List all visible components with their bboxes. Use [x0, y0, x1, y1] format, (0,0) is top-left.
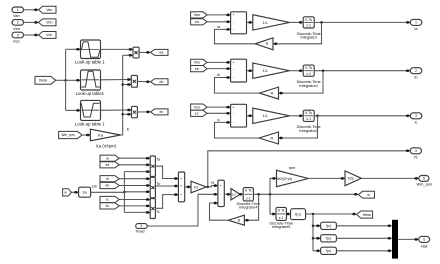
- svg-text:Integrator4: Integrator4: [239, 205, 257, 209]
- look-up table1: [81, 70, 101, 90]
- svg-text:+: +: [232, 105, 234, 109]
- discrete-time integrator4: [243, 188, 253, 201]
- wire 1/w to product Tc: [124, 211, 147, 213]
- product (eb): [131, 75, 137, 87]
- svg-text:1/Zp: 1/Zp: [347, 177, 354, 181]
- wire eb to sum: [207, 68, 227, 70]
- svg-text:z-1: z-1: [246, 197, 251, 201]
- discrete-time integrator (Integrator2): [303, 110, 314, 121]
- inport 2 (Vbn): [12, 20, 24, 26]
- wire ec to sum: [207, 112, 227, 114]
- svg-text:1/L: 1/L: [263, 21, 268, 25]
- svg-text:w: w: [367, 193, 370, 197]
- wire Tb to sum: [155, 185, 175, 187]
- svg-text:-: -: [220, 192, 221, 196]
- wire integrator5 to f(u): [285, 213, 288, 215]
- wire Vbn: [24, 21, 36, 23]
- svg-text:R: R: [266, 42, 269, 46]
- svg-text:+: +: [180, 184, 182, 188]
- svg-text:5: 5: [423, 177, 425, 181]
- outport 4 (Te): [406, 150, 409, 153]
- gain R: [259, 132, 279, 144]
- gain R: [255, 38, 273, 50]
- product (ec): [132, 106, 138, 117]
- from tag [ia] torque: [100, 155, 119, 161]
- svg-text:60/(2*pi): 60/(2*pi): [277, 176, 292, 181]
- svg-text:Te: Te: [211, 181, 215, 185]
- svg-text:1/J: 1/J: [232, 192, 237, 196]
- wire integrator to outport: [314, 21, 406, 23]
- look-up table 2: [81, 100, 101, 120]
- product Tb: [150, 177, 155, 198]
- svg-text:K Ts: K Ts: [245, 189, 252, 193]
- svg-text:Vbn: Vbn: [13, 26, 20, 31]
- wire riser to integrator5: [270, 194, 273, 214]
- svg-text:K Ts: K Ts: [305, 18, 312, 22]
- svg-text:1/w: 1/w: [92, 184, 98, 188]
- svg-text:E: E: [127, 127, 130, 132]
- svg-text:6: 6: [423, 238, 425, 242]
- wire R to sum (ic): [215, 122, 260, 138]
- svg-text:Van: Van: [46, 8, 52, 12]
- wire R to sum (ia): [215, 29, 256, 43]
- from tag [eb] torque: [100, 182, 119, 188]
- from tag [ec]: [191, 110, 207, 116]
- svg-text:Van: Van: [194, 13, 200, 17]
- product (ea): [133, 47, 139, 58]
- from tag [Van]: [191, 12, 207, 18]
- wire product to goto ea: [139, 51, 147, 53]
- svg-text:Integrator: Integrator: [300, 35, 317, 40]
- svg-text:Vbn: Vbn: [194, 61, 200, 65]
- from tag [eb]: [191, 66, 207, 72]
- svg-text:ec: ec: [159, 110, 163, 114]
- wire integrator to outport: [314, 70, 406, 72]
- wire Vbn to sum: [207, 61, 227, 63]
- gain 1/Zp: [345, 171, 361, 186]
- wire w to 1/u: [71, 191, 75, 193]
- from tag [ic] torque: [100, 196, 119, 202]
- svg-text:-: -: [233, 76, 234, 80]
- wire Ta to sum: [155, 166, 175, 178]
- wire Wm_rpm to Ka: [82, 134, 87, 136]
- svg-text:1: 1: [415, 21, 417, 25]
- from tag [Vbn]: [191, 59, 207, 65]
- wire riser to rpm gain: [270, 178, 273, 194]
- wire mux to outport Hall: [398, 238, 415, 240]
- goto tag [ea]: [146, 51, 149, 54]
- svg-text:ea: ea: [195, 20, 199, 24]
- goto tag [Vcn]: [34, 34, 37, 37]
- wire integrator to outport: [314, 115, 406, 117]
- outport 2 (ib): [406, 69, 409, 72]
- svg-text:4: 4: [141, 224, 143, 228]
- wire table2 to product: [101, 79, 129, 81]
- wire sum to gain K3: [185, 186, 188, 188]
- wire hall c to mux: [336, 250, 388, 252]
- wire B to sum: [210, 203, 229, 220]
- wire hall a to mux: [336, 225, 388, 227]
- wire to look-up table 1: [66, 48, 78, 50]
- svg-text:f(u): f(u): [326, 224, 331, 228]
- svg-text:Tb: Tb: [156, 182, 160, 186]
- wire gain to integrator: [290, 115, 301, 117]
- svg-text:Integrator2: Integrator2: [299, 128, 318, 133]
- svg-text:2: 2: [415, 69, 417, 73]
- svg-text:Wm_rpm: Wm_rpm: [417, 182, 433, 187]
- outport 3 (ic): [406, 115, 409, 118]
- goto tag [Van]: [34, 9, 37, 12]
- goto tag [eb]: [146, 80, 149, 83]
- svg-text:ia: ia: [217, 25, 220, 29]
- svg-text:-: -: [233, 20, 234, 24]
- svg-text:1/u: 1/u: [82, 191, 87, 195]
- svg-text:Wm_rpm: Wm_rpm: [61, 133, 75, 137]
- svg-text:+: +: [232, 61, 234, 65]
- wire table3 to product: [101, 109, 129, 111]
- gain 1/L: [253, 108, 290, 123]
- sum mechanical: [218, 180, 224, 206]
- svg-text:eb: eb: [106, 184, 110, 188]
- wire E to product ec: [121, 113, 124, 116]
- gain Ka (V/rpm): [90, 129, 120, 141]
- wire E riser: [121, 55, 123, 135]
- svg-text:-: -: [220, 201, 221, 205]
- svg-text:Look-up table 1: Look-up table 1: [75, 121, 105, 126]
- goto tag [w]: [354, 193, 357, 196]
- svg-text:ib: ib: [106, 177, 109, 181]
- svg-text:Te: Te: [414, 156, 418, 160]
- svg-text:ib: ib: [415, 76, 418, 80]
- gain R: [259, 87, 278, 99]
- svg-text:eb: eb: [159, 80, 163, 84]
- wire feedback to gain B: [248, 194, 259, 220]
- wire theta riser to hall fcns: [312, 214, 314, 251]
- svg-text:R: R: [270, 136, 273, 140]
- wire product to goto ec: [137, 111, 147, 113]
- inport 3 (Vcn): [12, 32, 24, 38]
- wire to fcn hall a: [312, 225, 315, 228]
- svg-text:ic: ic: [415, 121, 418, 125]
- sum of torques: [178, 172, 184, 202]
- svg-text:+: +: [180, 193, 182, 197]
- gain 1/L: [253, 15, 290, 30]
- svg-text:K Ts: K Ts: [305, 111, 312, 115]
- svg-text:2: 2: [17, 21, 19, 25]
- svg-text:Vcn: Vcn: [13, 38, 20, 43]
- svg-text:Ka (V/rpm): Ka (V/rpm): [96, 144, 116, 149]
- wire Vcn: [24, 34, 36, 36]
- outport 6 (Hall): [414, 238, 417, 241]
- wire Van to sum: [207, 14, 227, 16]
- from tag [w]: [63, 189, 72, 196]
- svg-text:Vbn: Vbn: [46, 21, 52, 25]
- svg-text:Look-up table1: Look-up table1: [76, 91, 105, 96]
- svg-text:eb: eb: [195, 67, 199, 71]
- svg-text:+: +: [220, 184, 222, 188]
- wire rpm gain to 1/Zp: [308, 177, 342, 179]
- wire 1/w trunk: [91, 191, 147, 194]
- svg-text:ea: ea: [159, 51, 163, 55]
- wire 1/w riser: [123, 172, 125, 213]
- from tag [ec] torque: [100, 203, 119, 209]
- svg-text:ec: ec: [106, 204, 110, 208]
- wire gain to integrator: [290, 21, 301, 23]
- from tag [Vcn]: [191, 104, 207, 110]
- discrete-time integrator (Integrator): [303, 17, 314, 28]
- outport 5 (Wm_rpm): [414, 177, 417, 180]
- svg-text:z-1: z-1: [306, 24, 311, 28]
- look-up table 1: [81, 40, 101, 59]
- svg-text:K Ts: K Ts: [278, 208, 285, 212]
- svg-text:ia: ia: [106, 156, 109, 160]
- wire feedback to gain R: [276, 22, 321, 43]
- fcn 1/u: [79, 187, 91, 197]
- wire eb to product Tb: [119, 185, 147, 187]
- wire f(u) to goto theta: [306, 213, 353, 215]
- svg-text:Vcn: Vcn: [46, 33, 52, 37]
- discrete-time integrator5: [276, 207, 286, 220]
- svg-text:1/L: 1/L: [263, 69, 268, 73]
- svg-text:rpm: rpm: [289, 166, 296, 170]
- wire R to sum (ib): [215, 78, 260, 94]
- svg-text:f(u): f(u): [326, 249, 331, 253]
- from tag [ea]: [191, 19, 207, 25]
- svg-text:K3: K3: [194, 185, 198, 189]
- fcn f(u) hall a: [321, 222, 337, 229]
- product Tc: [150, 199, 155, 219]
- inport 4 (Tload): [136, 224, 148, 229]
- svg-text:z-1: z-1: [306, 72, 311, 76]
- gain K3: [191, 181, 206, 193]
- wire K3 to sum / node Te: [206, 186, 208, 188]
- wire to look-up table 2: [66, 109, 78, 111]
- wire ea to product Ta: [119, 164, 147, 166]
- wire product to goto eb: [137, 81, 147, 83]
- from tag [ea] torque: [100, 162, 119, 168]
- wire w trunk: [253, 193, 355, 195]
- svg-text:f(u): f(u): [295, 212, 301, 216]
- gain B: [228, 215, 244, 225]
- svg-text:4: 4: [415, 149, 417, 153]
- svg-text:-: -: [233, 121, 234, 125]
- svg-text:+: +: [232, 13, 234, 17]
- wire ia to product Ta: [119, 157, 147, 159]
- wire sum to gain 1/J: [224, 193, 228, 195]
- wire ic to product Tc: [119, 199, 147, 201]
- wire Tload to sum: [147, 194, 215, 226]
- wire sum to gain 1/L: [247, 115, 250, 117]
- fcn f(u) hall c: [321, 247, 337, 254]
- sum block: [231, 104, 247, 127]
- svg-text:ic: ic: [217, 118, 220, 122]
- svg-text:Tload: Tload: [135, 230, 145, 234]
- svg-text:Look-up table 1: Look-up table 1: [75, 60, 105, 65]
- goto tag [ec]: [146, 111, 149, 114]
- wire feedback to gain R: [282, 71, 323, 93]
- wire gain to integrator: [290, 70, 301, 72]
- from tag [Wm_rpm]: [59, 131, 82, 138]
- fcn f(u) hall b: [321, 235, 337, 242]
- svg-text:Ka: Ka: [98, 132, 104, 137]
- wire table1 to product: [101, 48, 130, 50]
- wire sum to gain 1/L: [247, 21, 250, 23]
- svg-text:Hall: Hall: [421, 244, 428, 248]
- svg-text:-: -: [233, 28, 234, 32]
- gain 1/J: [231, 189, 240, 200]
- svg-text:ea: ea: [106, 163, 110, 167]
- svg-text:+: +: [180, 177, 182, 181]
- svg-text:R: R: [271, 91, 274, 95]
- sum block: [231, 12, 247, 34]
- goto tag [Vbn]: [34, 21, 37, 24]
- gain 60/(2*pi): [277, 170, 309, 186]
- wire ea to sum: [207, 21, 227, 23]
- gain 1/L: [253, 63, 290, 78]
- wire to fcn hall b: [312, 237, 315, 240]
- svg-text:w: w: [64, 191, 67, 195]
- svg-text:3: 3: [415, 114, 417, 118]
- svg-text:z-1: z-1: [279, 216, 284, 220]
- wire feedback to gain R: [282, 116, 318, 138]
- svg-text:theta: theta: [363, 213, 371, 217]
- svg-text:ec: ec: [195, 112, 199, 116]
- inport 1 (Van): [12, 7, 24, 13]
- mux: [392, 220, 398, 259]
- svg-text:Tc: Tc: [156, 210, 160, 214]
- fcn f(u) theta: [291, 209, 306, 220]
- from tag [ib] torque: [100, 176, 119, 182]
- wire to outport Wm_rpm: [361, 177, 415, 179]
- wire Te riser to outport: [208, 151, 407, 187]
- svg-text:ic: ic: [106, 198, 109, 202]
- wire hall b to mux: [336, 237, 388, 239]
- goto tag [theta]: [352, 213, 355, 216]
- svg-text:theta: theta: [39, 79, 47, 83]
- svg-text:z-1: z-1: [306, 117, 311, 121]
- svg-text:-: -: [233, 111, 234, 115]
- wire to fcn hall c: [313, 250, 317, 252]
- wire E to product eb: [121, 83, 124, 86]
- svg-text:Integrator1: Integrator1: [299, 83, 318, 88]
- wire Van: [24, 9, 36, 11]
- svg-text:3: 3: [17, 33, 19, 37]
- svg-text:-: -: [233, 67, 234, 71]
- sum block: [231, 59, 247, 82]
- wire Vcn to sum: [207, 106, 227, 108]
- svg-text:K Ts: K Ts: [305, 66, 312, 70]
- svg-text:1: 1: [17, 8, 19, 12]
- wire ib to product Tb: [119, 178, 147, 180]
- wire 1/w to product Ta: [124, 171, 147, 173]
- wire sum to gain 1/L: [247, 70, 250, 72]
- outport 1 (ia): [406, 21, 409, 24]
- wire E to product ea: [123, 54, 130, 56]
- svg-text:Ta: Ta: [156, 157, 160, 161]
- product Ta: [150, 156, 155, 177]
- svg-text:Van: Van: [13, 13, 20, 18]
- svg-text:f(u): f(u): [326, 237, 331, 241]
- wire 1/J to integrator4: [239, 193, 241, 195]
- wire theta trunk: [56, 79, 66, 81]
- svg-text:ib: ib: [217, 73, 220, 77]
- wire ec to product Tc: [119, 205, 147, 207]
- discrete-time integrator (Integrator1): [303, 65, 314, 76]
- svg-text:Vcn: Vcn: [194, 105, 200, 109]
- svg-text:Integrator5: Integrator5: [272, 225, 290, 229]
- from tag [theta]: [35, 76, 56, 84]
- wire theta to look-up table1: [66, 79, 78, 81]
- wire Tc to sum: [155, 195, 175, 209]
- svg-text:1/L: 1/L: [263, 114, 268, 118]
